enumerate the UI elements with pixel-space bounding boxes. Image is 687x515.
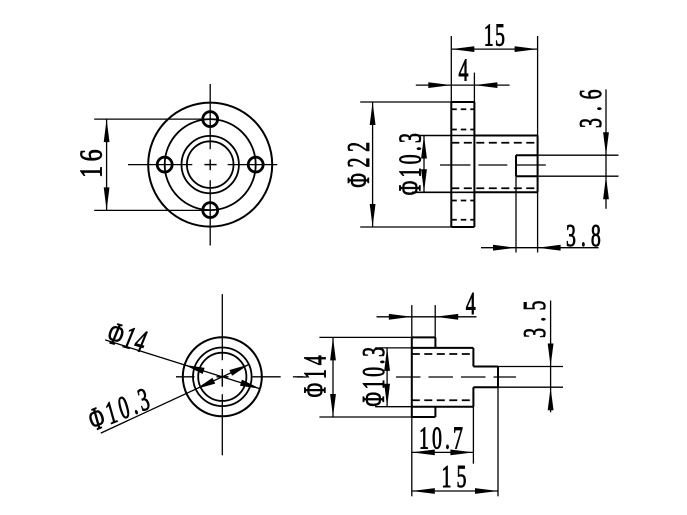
collar left edge [411, 337, 413, 417]
leader phi14 line [105, 340, 260, 389]
step bottom edge [516, 175, 538, 177]
dim 10.7 dimension line [412, 451, 474, 453]
body2 right edge upper [472, 348, 474, 367]
flange section outline [451, 102, 474, 227]
dim 15b arrow left [412, 488, 435, 494]
dim phi22 arrow down [370, 204, 376, 227]
bore circle [187, 141, 234, 188]
dim phi14b extension bottom [319, 416, 411, 418]
dim phi14b arrow down [330, 394, 336, 417]
dim 10.7 extension right [472, 407, 474, 464]
dim 15 extension left [450, 36, 452, 102]
dim 3.8 arrow right [493, 245, 516, 251]
hidden bolt hole bottom b [451, 219, 474, 221]
hidden bolt hole top b [451, 129, 474, 131]
end view horizontal centerline [176, 376, 303, 378]
svg-text:10.7: 10.7 [419, 420, 466, 456]
dim phi22 dimension line [372, 102, 374, 227]
dim 10.7 arrow right [450, 450, 473, 456]
body2 right edge lower [472, 387, 474, 407]
dim 3.5 extension top [498, 366, 563, 368]
body bottom edge [474, 191, 537, 193]
svg-text:15: 15 [484, 17, 506, 53]
section centerline [440, 164, 546, 166]
body2 top edge [412, 347, 474, 349]
dim 15 arrow right [515, 46, 538, 52]
dim 3.5 extension bottom [498, 386, 563, 388]
hidden bore2 upper [412, 353, 474, 355]
dim 4b arrow right [435, 314, 458, 320]
dim 3.5 dimension line [550, 301, 552, 413]
dim 15b dimension line [412, 490, 498, 492]
bolt hole bottom [203, 203, 218, 218]
dim 3.6 extension bottom [538, 175, 619, 177]
tab bottom edge [473, 386, 498, 388]
hidden bolt hole top a [451, 108, 474, 110]
dim phi10.3 extension top [412, 135, 474, 137]
hidden bore line lower [451, 187, 537, 189]
dim 4b extension right [434, 305, 436, 337]
bolt hole top [203, 112, 218, 127]
flange front view outer circle (diam 22) [148, 103, 272, 227]
dim 3.8 extension left [515, 176, 517, 252]
dim phi22 arrow up [370, 102, 376, 125]
body circle [182, 136, 239, 193]
svg-text:3.8: 3.8 [566, 217, 606, 253]
end view inner circle [198, 353, 246, 401]
dim phi14b extension top [319, 336, 411, 338]
dim 16 dimension line [106, 119, 108, 210]
dim 4 dimension line [416, 84, 510, 86]
body2 bottom edge [412, 406, 474, 408]
dim phi10.3b arrow up [384, 348, 390, 371]
bolt hole right [248, 157, 263, 172]
hidden bore2 lower [412, 399, 474, 401]
svg-text:16: 16 [75, 145, 110, 178]
dim 3.6 extension top [538, 154, 619, 156]
dim 15 arrow left [451, 46, 474, 52]
dim 3.6 arrow down [603, 132, 609, 155]
dim 15 extension right [537, 36, 539, 136]
bolt hole left [157, 157, 172, 172]
end view outer circle (diam 14) [183, 337, 262, 416]
tab right edge [497, 367, 499, 388]
dim 15 dimension line [451, 48, 537, 50]
dim phi22 extension bottom [360, 226, 451, 228]
collar right edge lower [434, 407, 436, 417]
svg-text:3.6: 3.6 [572, 83, 608, 128]
dim 15b extension right [497, 387, 499, 496]
svg-text:Φ14: Φ14 [297, 352, 333, 398]
dim 3.5 arrow down [548, 344, 554, 367]
dim phi14b dimension line [332, 337, 334, 417]
collar top edge [412, 336, 436, 338]
dim 4 extension right [473, 73, 475, 102]
bolt circle (diam 16) [165, 119, 256, 210]
end view middle circle (diam 10.3) [193, 348, 252, 407]
dim 3.6 arrow up [603, 176, 609, 199]
dim phi10.3b arrow down [384, 384, 390, 407]
dim 16 arrow up [104, 119, 110, 142]
body right edge [537, 136, 539, 193]
leader phi10.3 arrow near [196, 378, 216, 389]
ext body2 left below [411, 417, 413, 496]
svg-text:4: 4 [459, 52, 469, 88]
dim phi10.3b extension top [375, 347, 412, 349]
dim 3.8 dimension line [481, 247, 599, 249]
ext body2 left above [411, 305, 413, 337]
vertical centerline [209, 84, 211, 246]
leader phi14 arrow far [240, 380, 260, 389]
leader phi10.3 arrow far [229, 365, 249, 376]
tab top edge [473, 366, 498, 368]
dim phi14b arrow up [330, 337, 336, 360]
dim 4b arrow left [389, 314, 412, 320]
dim 3.8 extension right [537, 192, 539, 252]
dim phi10.3 dimension line [423, 136, 425, 193]
dim 4 arrow left [428, 82, 451, 88]
svg-text:Φ22: Φ22 [340, 136, 376, 187]
step top edge [516, 154, 538, 156]
dim phi10.3 extension bottom [412, 191, 474, 193]
dim 3.6 dimension line [605, 89, 607, 208]
dim 4 arrow right [474, 82, 497, 88]
hidden bolt hole bottom a [451, 200, 474, 202]
dim 16 extension line top [94, 118, 219, 120]
svg-text:4: 4 [466, 285, 476, 321]
collar right edge upper [434, 337, 436, 348]
dim 3.5 arrow up [548, 387, 554, 410]
dim phi22 extension top [360, 101, 451, 103]
hidden bore line upper [451, 142, 537, 144]
svg-text:15: 15 [441, 458, 471, 494]
leader phi10.3 line [101, 365, 249, 434]
dim phi10.3b dimension line [386, 348, 388, 407]
horizontal centerline [128, 164, 277, 166]
leader phi14 arrow near [185, 365, 205, 374]
step left edge [515, 155, 517, 176]
end view vertical centerline [221, 294, 223, 455]
collar bottom edge [412, 416, 436, 418]
dim 16 arrow down [104, 187, 110, 210]
svg-text:Φ10.3: Φ10.3 [355, 344, 391, 406]
view4 centerline [297, 376, 516, 378]
body top edge [474, 135, 537, 137]
dim 16 extension line bottom [94, 209, 211, 211]
dim phi10.3 arrow down [421, 169, 427, 192]
dim phi10.3 arrow up [421, 136, 427, 159]
svg-text:3.5: 3.5 [516, 294, 552, 338]
dim 15b arrow right [475, 488, 498, 494]
dim 10.7 arrow left [412, 450, 435, 456]
svg-text:Φ10.3: Φ10.3 [392, 130, 428, 195]
dim phi10.3b extension bottom [375, 406, 412, 408]
dim 3.8 arrow left [538, 245, 561, 251]
dim 4b dimension line [377, 316, 477, 318]
